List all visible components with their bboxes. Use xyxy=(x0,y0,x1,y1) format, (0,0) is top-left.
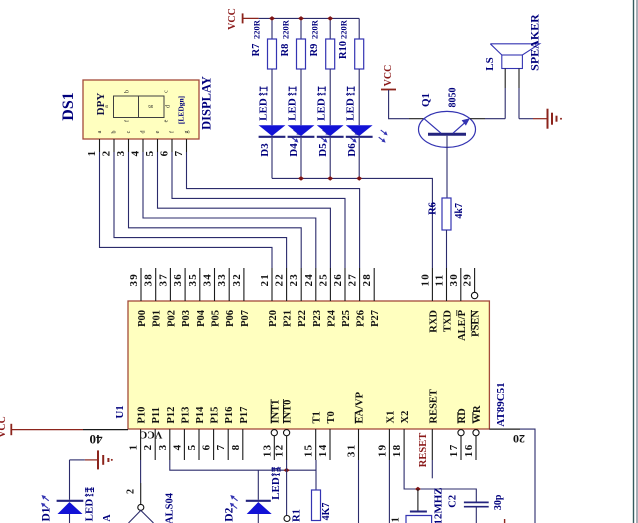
svg-text:P00: P00 xyxy=(137,310,148,327)
svg-text:R6: R6 xyxy=(428,202,439,215)
svg-text:8050: 8050 xyxy=(447,88,458,108)
svg-text:d: d xyxy=(141,131,147,134)
svg-text:T0: T0 xyxy=(326,411,337,423)
svg-text:22: 22 xyxy=(274,273,286,287)
svg-text:d: d xyxy=(166,105,172,108)
svg-text:D2: D2 xyxy=(224,507,236,521)
svg-text:4K7: 4K7 xyxy=(321,503,332,521)
svg-text:LED: LED xyxy=(316,98,328,121)
svg-text:VCC: VCC xyxy=(140,429,163,440)
svg-text:WR: WR xyxy=(472,405,483,424)
svg-text:10: 10 xyxy=(419,273,431,287)
svg-text:4: 4 xyxy=(130,150,142,157)
svg-text:28: 28 xyxy=(361,273,373,287)
svg-text:b: b xyxy=(112,131,118,134)
svg-text:P22: P22 xyxy=(297,310,308,327)
svg-text:P03: P03 xyxy=(181,310,192,327)
svg-text:AT89C51: AT89C51 xyxy=(495,382,507,426)
svg-text:11: 11 xyxy=(434,274,446,287)
svg-text:30: 30 xyxy=(448,273,460,287)
svg-text:P26: P26 xyxy=(356,310,367,327)
svg-text:e: e xyxy=(155,130,161,133)
svg-text:DISPLAY: DISPLAY xyxy=(200,76,214,130)
svg-text:P17: P17 xyxy=(239,407,250,424)
svg-text:VCC: VCC xyxy=(0,416,8,438)
svg-text:A: A xyxy=(102,514,113,522)
svg-text:INT0: INT0 xyxy=(283,400,294,424)
svg-text:12: 12 xyxy=(274,444,286,458)
svg-text:17: 17 xyxy=(448,444,460,458)
svg-text:R8: R8 xyxy=(280,44,291,57)
svg-text:SPEAKER: SPEAKER xyxy=(528,14,542,71)
svg-text:LED: LED xyxy=(270,477,282,500)
svg-text:P11: P11 xyxy=(151,407,162,423)
svg-text:D3: D3 xyxy=(259,143,271,157)
svg-text:DS1: DS1 xyxy=(60,92,77,120)
svg-text:33: 33 xyxy=(216,273,228,287)
svg-text:b: b xyxy=(125,90,131,93)
svg-text:P06: P06 xyxy=(225,310,236,327)
svg-text:3: 3 xyxy=(157,444,169,451)
svg-text:19: 19 xyxy=(376,444,388,458)
svg-text:31: 31 xyxy=(346,444,358,458)
svg-text:1: 1 xyxy=(128,444,140,451)
svg-text:Q1: Q1 xyxy=(420,93,432,107)
svg-text:f: f xyxy=(169,131,176,133)
svg-text:29: 29 xyxy=(462,273,474,287)
svg-text:4: 4 xyxy=(171,444,183,451)
svg-text:1: 1 xyxy=(86,150,98,157)
svg-text:P20: P20 xyxy=(268,310,279,327)
svg-text:g: g xyxy=(184,131,190,134)
svg-text:P14: P14 xyxy=(195,406,206,424)
svg-text:1: 1 xyxy=(391,517,402,522)
svg-text:39: 39 xyxy=(128,273,140,287)
svg-text:35: 35 xyxy=(187,273,199,287)
svg-text:e: e xyxy=(164,119,170,122)
svg-text:6: 6 xyxy=(159,150,171,157)
svg-text:c: c xyxy=(164,90,170,93)
svg-text:P07: P07 xyxy=(240,310,251,327)
svg-text:220R: 220R xyxy=(281,19,291,39)
svg-text:2: 2 xyxy=(101,150,113,157)
svg-text:X2: X2 xyxy=(400,411,411,424)
svg-text:LED: LED xyxy=(258,98,270,121)
svg-text:20: 20 xyxy=(513,432,525,446)
svg-text:VCC: VCC xyxy=(383,65,394,87)
svg-text:3: 3 xyxy=(115,150,127,157)
svg-text:P10: P10 xyxy=(137,407,148,424)
svg-text:R10: R10 xyxy=(338,41,349,59)
svg-text:[LEDgn]: [LEDgn] xyxy=(177,96,186,124)
svg-text:P25: P25 xyxy=(341,310,352,327)
svg-text:D1: D1 xyxy=(41,507,53,521)
svg-text:21: 21 xyxy=(259,273,271,287)
svg-text:27: 27 xyxy=(347,273,359,287)
svg-text:RXD: RXD xyxy=(428,310,439,333)
svg-text:2: 2 xyxy=(126,489,137,494)
svg-text:D4: D4 xyxy=(288,143,300,157)
svg-text:LS: LS xyxy=(484,57,496,70)
svg-text:2: 2 xyxy=(142,444,154,451)
svg-text:U1: U1 xyxy=(114,405,126,418)
svg-text:8: 8 xyxy=(230,444,242,451)
svg-text:13: 13 xyxy=(261,444,273,458)
svg-text:23: 23 xyxy=(288,273,300,287)
svg-text:P24: P24 xyxy=(326,309,337,327)
svg-text:ALE/P: ALE/P xyxy=(457,309,468,341)
svg-text:P02: P02 xyxy=(166,310,177,327)
svg-text:32: 32 xyxy=(231,273,243,287)
svg-text:16: 16 xyxy=(463,444,475,458)
svg-text:f: f xyxy=(124,120,131,122)
svg-text:P27: P27 xyxy=(370,310,381,327)
svg-text:7: 7 xyxy=(215,444,227,451)
svg-text:6: 6 xyxy=(201,444,213,451)
svg-text:g: g xyxy=(148,105,154,108)
svg-text:R9: R9 xyxy=(309,44,320,57)
svg-text:40: 40 xyxy=(90,432,103,447)
svg-text:36: 36 xyxy=(172,273,184,287)
svg-text:18: 18 xyxy=(391,444,403,458)
svg-text:14: 14 xyxy=(317,444,329,458)
svg-text:P16: P16 xyxy=(224,407,235,424)
svg-text:P15: P15 xyxy=(210,407,221,424)
svg-text:D6: D6 xyxy=(346,143,358,157)
svg-text:R7: R7 xyxy=(251,44,262,57)
svg-text:DPY: DPY xyxy=(95,93,107,116)
svg-text:D5: D5 xyxy=(317,143,329,157)
svg-text:25: 25 xyxy=(317,273,329,287)
svg-text:P01: P01 xyxy=(152,310,163,327)
svg-text:15: 15 xyxy=(303,444,315,458)
svg-text:INT1: INT1 xyxy=(270,400,281,424)
svg-text:C2: C2 xyxy=(447,495,458,508)
svg-text:LED: LED xyxy=(345,98,357,121)
svg-text:24: 24 xyxy=(303,273,315,287)
svg-text:TXD: TXD xyxy=(443,310,454,333)
svg-text:P21: P21 xyxy=(283,310,294,327)
svg-text:P12: P12 xyxy=(166,407,177,424)
svg-text:RESET: RESET xyxy=(418,433,429,467)
svg-text:RD: RD xyxy=(457,408,468,424)
svg-text:a: a xyxy=(97,130,103,133)
svg-text:P23: P23 xyxy=(312,310,323,327)
svg-text:5: 5 xyxy=(144,150,156,157)
svg-text:30p: 30p xyxy=(493,494,504,510)
svg-text:220R: 220R xyxy=(310,19,320,39)
svg-text:220R: 220R xyxy=(252,19,262,39)
svg-text:LED: LED xyxy=(287,98,299,121)
svg-text:P05: P05 xyxy=(211,310,222,327)
svg-text:5: 5 xyxy=(186,444,198,451)
svg-text:ALS04: ALS04 xyxy=(165,492,176,523)
svg-text:T1: T1 xyxy=(312,411,323,423)
svg-text:c: c xyxy=(126,130,132,133)
svg-text:4k7: 4k7 xyxy=(454,203,465,219)
svg-text:RESET: RESET xyxy=(428,389,439,423)
svg-text:220R: 220R xyxy=(339,19,349,39)
svg-text:37: 37 xyxy=(157,273,169,287)
svg-text:P13: P13 xyxy=(180,407,191,424)
svg-text:7: 7 xyxy=(173,150,185,157)
svg-text:26: 26 xyxy=(332,273,344,287)
svg-text:34: 34 xyxy=(202,273,214,287)
svg-text:12MHZ: 12MHZ xyxy=(433,487,445,523)
svg-text:VCC: VCC xyxy=(227,8,238,30)
svg-text:PSEN: PSEN xyxy=(471,310,482,337)
svg-text:EA/VP: EA/VP xyxy=(355,391,366,423)
svg-text:P04: P04 xyxy=(196,309,207,327)
svg-text:R1: R1 xyxy=(292,509,303,522)
svg-text:LED: LED xyxy=(84,499,96,522)
svg-text:X1: X1 xyxy=(385,411,396,424)
svg-text:38: 38 xyxy=(143,273,155,287)
